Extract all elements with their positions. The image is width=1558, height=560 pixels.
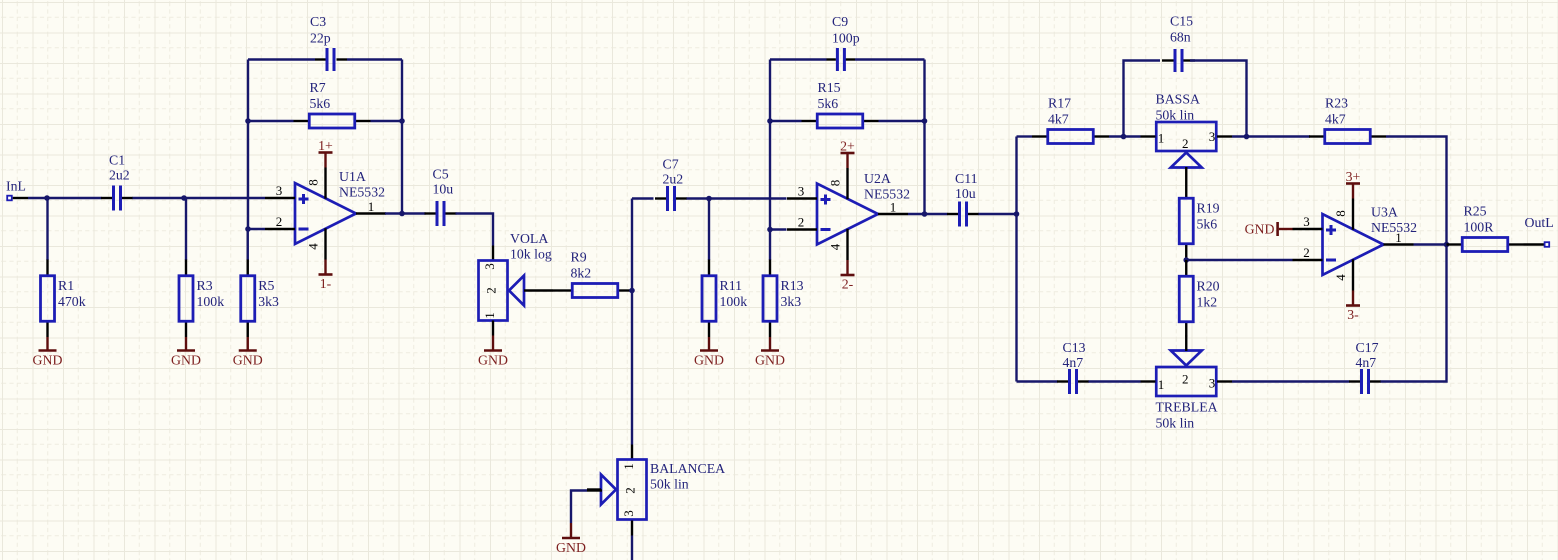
svg-text:R7: R7 xyxy=(310,80,326,95)
port InL xyxy=(6,179,26,201)
wire C15 pin right xyxy=(1184,59,1196,61)
wire C9 pin right xyxy=(846,58,856,60)
svg-text:1k2: 1k2 xyxy=(1197,295,1218,310)
wire BALANCEA wiper to GND xyxy=(571,491,602,524)
wire C5 to VOLA xyxy=(456,214,494,246)
svg-text:3: 3 xyxy=(798,184,805,199)
svg-text:4n7: 4n7 xyxy=(1063,355,1084,370)
svg-text:4n7: 4n7 xyxy=(1356,355,1377,370)
svg-text:4k7: 4k7 xyxy=(1048,111,1069,126)
resistor R19 xyxy=(1179,183,1219,260)
pin wires xyxy=(1141,380,1156,382)
port OutL xyxy=(1525,215,1554,247)
body xyxy=(618,460,647,520)
pin 8 xyxy=(1352,199,1354,230)
svg-text:5k6: 5k6 xyxy=(1197,217,1218,232)
node junction R1 xyxy=(44,195,50,201)
svg-text:U2A: U2A xyxy=(864,171,891,186)
wire R17 to BASSA xyxy=(1109,135,1141,137)
svg-text:4: 4 xyxy=(1333,274,1348,281)
svg-text:5k6: 5k6 xyxy=(818,96,839,111)
svg-text:R3: R3 xyxy=(197,278,213,293)
wire BASSA to R23 xyxy=(1232,135,1310,137)
svg-text:C9: C9 xyxy=(832,14,848,29)
node junction R7 right xyxy=(399,118,405,124)
resistor R15 xyxy=(802,80,879,128)
op-amp U3A xyxy=(1293,199,1418,291)
svg-text:C7: C7 xyxy=(663,157,679,172)
resistor R5 xyxy=(241,229,279,337)
resistor R17 xyxy=(1032,95,1109,143)
wire C17 to right vertical xyxy=(1381,245,1447,382)
wire C15 left vertical xyxy=(1124,61,1161,137)
svg-text:5k6: 5k6 xyxy=(310,96,331,111)
svg-text:3k3: 3k3 xyxy=(258,294,279,309)
pin 4 xyxy=(324,228,326,259)
node junction R15 right xyxy=(922,118,928,124)
pin 1 output xyxy=(1384,243,1414,245)
power 1- xyxy=(319,260,333,292)
resistor R1 xyxy=(41,198,86,337)
pin 1 output xyxy=(878,213,908,215)
wire pin2 stub2 xyxy=(770,228,787,230)
wire pin2 stub xyxy=(248,228,265,230)
wire stage2 top xyxy=(632,197,654,199)
triangle body xyxy=(1323,214,1384,275)
pin wires xyxy=(655,197,666,199)
wire feedback2 top left xyxy=(770,58,827,60)
svg-text:2u2: 2u2 xyxy=(663,172,684,187)
svg-text:2: 2 xyxy=(1182,372,1189,387)
pin 8 xyxy=(324,168,326,199)
svg-text:OutL: OutL xyxy=(1525,215,1554,230)
svg-text:C13: C13 xyxy=(1063,340,1086,355)
node junction pin2 xyxy=(245,226,251,232)
body xyxy=(479,261,508,321)
pin wires xyxy=(769,230,771,261)
wire R7 row left xyxy=(248,120,294,122)
ground xyxy=(171,337,201,368)
svg-text:50k lin: 50k lin xyxy=(1156,416,1195,431)
power 3+ xyxy=(1346,169,1361,199)
pin wires xyxy=(46,198,48,260)
resistor R9 xyxy=(557,249,634,297)
svg-text:1: 1 xyxy=(482,312,497,319)
body xyxy=(1462,238,1508,252)
pin wires xyxy=(294,120,309,122)
svg-text:100k: 100k xyxy=(197,294,225,309)
svg-text:8k2: 8k2 xyxy=(571,265,592,280)
wire C7 to U2A pin3 xyxy=(687,197,787,199)
pin wires xyxy=(802,120,817,122)
body xyxy=(763,276,777,322)
potentiometer TREBLEA xyxy=(1141,336,1233,431)
svg-text:R17: R17 xyxy=(1048,95,1071,110)
wire feedback2 left vertical xyxy=(769,60,771,230)
node junction C15 right xyxy=(1244,134,1250,140)
svg-text:R1: R1 xyxy=(58,278,74,293)
pin wires xyxy=(1032,135,1047,137)
body xyxy=(817,114,863,128)
svg-text:R23: R23 xyxy=(1325,95,1348,110)
op-amp U1A xyxy=(265,168,386,260)
wire BALANCEA pin1 black xyxy=(631,445,633,460)
svg-text:R19: R19 xyxy=(1197,201,1220,216)
svg-text:2u2: 2u2 xyxy=(109,168,130,183)
svg-text:2: 2 xyxy=(623,487,638,494)
svg-text:GND: GND xyxy=(233,353,263,368)
wire bottom row left xyxy=(1017,380,1058,382)
node junction tone input xyxy=(1014,211,1020,217)
wire C15 pin left xyxy=(1162,59,1174,61)
pin wires xyxy=(425,212,436,214)
wire feedback right vertical xyxy=(401,60,403,214)
svg-text:R5: R5 xyxy=(258,278,274,293)
svg-text:R9: R9 xyxy=(571,249,587,264)
svg-text:2: 2 xyxy=(484,287,499,294)
plus mark xyxy=(821,195,831,205)
svg-text:1: 1 xyxy=(1158,377,1165,392)
wire R15 row right xyxy=(879,120,925,122)
minus mark xyxy=(821,228,831,231)
wire C3 pin right xyxy=(337,58,348,60)
svg-text:NE5532: NE5532 xyxy=(339,185,385,200)
wiper arrow xyxy=(509,276,524,306)
svg-text:3k3: 3k3 xyxy=(781,294,802,309)
plates xyxy=(436,201,439,226)
wiper arrow xyxy=(601,475,616,505)
wire feedback top right xyxy=(347,58,402,60)
body xyxy=(41,276,55,322)
node junction output xyxy=(399,211,405,217)
wire VOLA pin1 black xyxy=(492,321,494,336)
wire tone left vertical xyxy=(1015,137,1017,382)
wiper arrow xyxy=(1171,153,1202,168)
pin 3 xyxy=(1293,228,1323,230)
svg-text:GND: GND xyxy=(171,353,201,368)
svg-text:C15: C15 xyxy=(1170,14,1193,29)
body xyxy=(702,276,716,322)
ground xyxy=(755,337,785,368)
wire R15 row left xyxy=(770,120,802,122)
resistor R3 xyxy=(179,198,224,337)
pin wires xyxy=(185,198,187,260)
node junction R11 xyxy=(706,196,712,202)
wire C1 to U1A pin3 xyxy=(133,197,266,199)
wire VOLA wiper to R9 xyxy=(553,289,557,291)
svg-text:GND: GND xyxy=(33,353,63,368)
plates xyxy=(112,186,115,211)
svg-text:R20: R20 xyxy=(1197,279,1220,294)
svg-text:U1A: U1A xyxy=(339,169,366,184)
capacitor C3 xyxy=(310,14,336,71)
ground xyxy=(694,337,724,368)
svg-text:C3: C3 xyxy=(310,14,326,29)
svg-text:C17: C17 xyxy=(1356,340,1379,355)
node junction R3 xyxy=(181,195,187,201)
svg-text:C1: C1 xyxy=(109,153,125,168)
wiper arrow xyxy=(1171,351,1202,366)
svg-text:3: 3 xyxy=(482,263,497,270)
svg-text:1: 1 xyxy=(1158,131,1165,146)
svg-text:68n: 68n xyxy=(1170,30,1191,45)
svg-text:VOLA: VOLA xyxy=(510,231,548,246)
pin wires xyxy=(1141,135,1156,137)
triangle body xyxy=(295,183,356,244)
capacitor C15 xyxy=(1170,14,1193,73)
pin 3 xyxy=(265,197,295,199)
wire C13 to TREBLEA xyxy=(1089,380,1141,382)
pin 3 xyxy=(787,197,817,199)
plates xyxy=(1360,369,1363,394)
capacitor C13 xyxy=(1057,340,1089,394)
pin 4 xyxy=(846,229,848,260)
pin wires xyxy=(101,197,112,199)
svg-text:470k: 470k xyxy=(58,294,86,309)
power 3- xyxy=(1346,291,1360,323)
body xyxy=(1325,130,1371,144)
wire R25 to OutL xyxy=(1524,243,1545,245)
svg-text:2: 2 xyxy=(1303,245,1310,260)
svg-text:100k: 100k xyxy=(720,294,748,309)
pin 1 output xyxy=(356,212,386,214)
plus mark xyxy=(299,194,309,204)
pin wires xyxy=(557,289,572,291)
pin wires xyxy=(1349,380,1360,382)
resistor R7 xyxy=(294,80,371,128)
svg-text:InL: InL xyxy=(6,179,26,194)
minus mark xyxy=(299,228,309,231)
capacitor C11 xyxy=(947,171,979,227)
capacitor C17 xyxy=(1349,340,1381,394)
svg-text:GND: GND xyxy=(694,353,724,368)
svg-text:2: 2 xyxy=(276,214,283,229)
resistor R11 xyxy=(702,199,747,338)
plus mark xyxy=(1326,225,1336,235)
pin wires xyxy=(1057,380,1068,382)
pin 2 xyxy=(265,228,295,230)
body xyxy=(1156,122,1216,151)
wire BALANCEA pin3 down xyxy=(631,521,633,560)
wire InL pin xyxy=(13,197,28,199)
resistor R20 xyxy=(1179,260,1219,337)
svg-text:1+: 1+ xyxy=(318,138,333,153)
svg-text:2: 2 xyxy=(798,215,805,230)
svg-text:10u: 10u xyxy=(955,186,976,201)
wire feedback left vertical xyxy=(247,60,249,230)
svg-text:100p: 100p xyxy=(832,31,860,46)
power 2+ xyxy=(840,139,855,169)
svg-text:50k lin: 50k lin xyxy=(650,477,689,492)
svg-text:50k lin: 50k lin xyxy=(1156,108,1195,123)
resistor R13 xyxy=(763,230,804,338)
ground U3A pin3 xyxy=(1245,222,1293,237)
svg-text:2: 2 xyxy=(1182,136,1189,151)
svg-text:NE5532: NE5532 xyxy=(864,187,910,202)
svg-text:C11: C11 xyxy=(955,171,978,186)
svg-text:3: 3 xyxy=(1209,376,1216,391)
wire junction to U3A pin2 xyxy=(1186,259,1292,261)
resistor R25 xyxy=(1447,203,1524,251)
svg-text:3-: 3- xyxy=(1347,307,1359,322)
wire InL to C1 xyxy=(28,197,102,199)
capacitor C5 xyxy=(425,167,457,227)
svg-text:10k log: 10k log xyxy=(510,247,552,262)
node junction R19 R20 xyxy=(1183,257,1189,263)
pin 4 xyxy=(1352,259,1354,290)
pin wires xyxy=(947,213,958,215)
svg-text:3: 3 xyxy=(621,510,636,517)
svg-text:3: 3 xyxy=(1209,129,1216,144)
svg-text:BALANCEA: BALANCEA xyxy=(650,461,725,476)
svg-text:8: 8 xyxy=(828,180,843,187)
ground xyxy=(33,337,63,368)
wire C15 right vertical xyxy=(1190,61,1247,137)
svg-text:2-: 2- xyxy=(842,277,854,292)
svg-text:GND: GND xyxy=(755,353,785,368)
svg-text:4: 4 xyxy=(306,243,321,250)
ground xyxy=(478,336,508,368)
wire R23 to output vertical xyxy=(1386,137,1447,245)
svg-text:8: 8 xyxy=(1333,210,1348,217)
svg-text:8: 8 xyxy=(306,179,321,186)
body xyxy=(1156,367,1216,396)
wire top row 1 xyxy=(1017,135,1033,137)
svg-text:GND: GND xyxy=(1245,222,1275,237)
body xyxy=(179,276,193,322)
node junction output U2A xyxy=(922,211,928,217)
svg-text:TREBLEA: TREBLEA xyxy=(1156,400,1218,415)
node junction C15 left xyxy=(1121,134,1127,140)
node junction pin2 U2A xyxy=(767,227,773,233)
body xyxy=(572,284,618,298)
op-amp U2A xyxy=(787,168,910,260)
svg-text:R25: R25 xyxy=(1464,203,1487,218)
body xyxy=(1048,130,1094,144)
body xyxy=(309,114,355,128)
power 1+ xyxy=(318,138,333,168)
wire VOLA pin3 black xyxy=(492,246,494,261)
wire C11 to vertical xyxy=(979,213,1017,215)
wire feedback top left xyxy=(248,58,315,60)
capacitor C9 xyxy=(832,14,860,71)
node junction R9 xyxy=(629,288,635,294)
svg-text:1: 1 xyxy=(621,463,636,470)
svg-text:GND: GND xyxy=(556,540,586,555)
svg-text:1: 1 xyxy=(368,199,375,214)
wire stage2 input vertical xyxy=(631,199,633,445)
ground xyxy=(233,337,263,368)
svg-text:GND: GND xyxy=(478,353,508,368)
svg-text:4k7: 4k7 xyxy=(1325,111,1346,126)
potentiometer VOLA xyxy=(479,231,554,321)
wire TREBLEA to C17 xyxy=(1232,380,1350,382)
svg-text:R11: R11 xyxy=(720,278,743,293)
pin 8 xyxy=(846,168,848,199)
potentiometer BASSA xyxy=(1141,92,1233,183)
pin wires xyxy=(708,199,710,261)
svg-text:3+: 3+ xyxy=(1346,169,1361,184)
capacitor C7 xyxy=(655,157,687,212)
potentiometer BALANCEA xyxy=(587,460,725,520)
pin wires xyxy=(1309,135,1324,137)
wire R25 out xyxy=(1414,243,1447,245)
pin 2 xyxy=(787,228,817,230)
svg-text:1: 1 xyxy=(890,200,897,215)
svg-text:BASSA: BASSA xyxy=(1156,92,1201,107)
wire feedback2 top right xyxy=(855,58,925,60)
svg-text:2+: 2+ xyxy=(840,139,855,154)
triangle body xyxy=(817,184,878,245)
svg-text:1-: 1- xyxy=(320,276,332,291)
capacitor C1 xyxy=(101,153,133,211)
node junction R7 left xyxy=(245,118,251,124)
body xyxy=(241,276,255,322)
svg-text:U3A: U3A xyxy=(1371,205,1398,220)
pin wires xyxy=(1447,243,1462,245)
node junction U3A output xyxy=(1444,242,1450,248)
pin wires xyxy=(247,229,249,260)
plates xyxy=(958,202,961,227)
svg-text:C5: C5 xyxy=(433,167,449,182)
wire C9 pin left xyxy=(827,58,836,60)
svg-text:R13: R13 xyxy=(781,278,804,293)
svg-text:22p: 22p xyxy=(310,31,331,46)
plates xyxy=(666,186,669,211)
svg-text:3: 3 xyxy=(1303,214,1310,229)
svg-text:4: 4 xyxy=(828,243,843,250)
svg-text:R15: R15 xyxy=(818,80,841,95)
resistor R23 xyxy=(1309,95,1386,143)
wire feedback2 right vertical xyxy=(923,60,925,215)
node junction R15 left xyxy=(767,118,773,124)
svg-text:3: 3 xyxy=(276,183,283,198)
svg-text:100R: 100R xyxy=(1464,219,1495,234)
wire C3 pin left xyxy=(315,58,326,60)
wire U2A out to C11 xyxy=(908,213,948,215)
svg-text:NE5532: NE5532 xyxy=(1371,220,1417,235)
plates xyxy=(1068,369,1071,394)
ground BALANCEA xyxy=(556,523,586,555)
pin 2 xyxy=(1293,259,1323,261)
wire R7 row right xyxy=(371,120,403,122)
minus mark xyxy=(1326,259,1336,262)
svg-text:10u: 10u xyxy=(433,182,454,197)
wire U1A out to C5 xyxy=(385,212,426,214)
power 2- xyxy=(841,260,855,292)
